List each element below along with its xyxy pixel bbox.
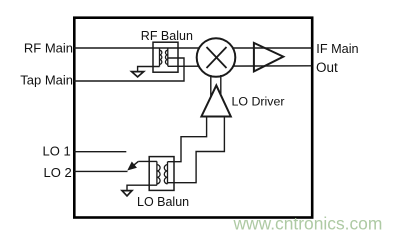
wire Tap Main rail [74,58,184,81]
wire RF balun primary ground lead [138,67,160,72]
svg-text:www.cntronics.com: www.cntronics.com [233,213,383,233]
LO balun secondary winding [164,162,167,184]
RF balun box [153,42,178,72]
LO balun box [149,157,174,191]
ground (LO balun) [122,191,132,196]
svg-text:Tap Main: Tap Main [20,73,73,88]
wire LO driver left input from LO balun secondary top [168,117,207,162]
wire RF Main rail (RF input to balun to mixer to IF amp to right edge) [74,47,312,49]
LO balun primary winding [157,161,160,185]
wire LO balun primary ground lead [127,185,157,190]
svg-text:RF Balun: RF Balun [141,29,193,43]
svg-text:IF Main: IF Main [316,42,358,56]
svg-text:LO Driver: LO Driver [232,94,285,108]
wire mixer LO port stem [210,75,212,99]
svg-text:LO 1: LO 1 [43,144,71,159]
mixer X [207,47,227,68]
svg-text:Out: Out [316,60,338,75]
switch arrowhead [128,163,136,170]
svg-text:LO Balun: LO Balun [137,195,189,209]
switch arm [133,161,139,166]
svg-text:RF Main: RF Main [24,40,73,55]
ground (RF balun) [132,72,144,77]
RF balun primary winding [160,48,162,67]
IF amp U1 [254,43,283,72]
device outline box [74,18,312,218]
mixer X circle [197,38,236,77]
wire bottom IF rail (balun secondary bottom to mixer to IF amp to right edge) [168,65,312,68]
RF balun secondary winding [165,48,167,66]
wire LO driver right input from LO balun secondary bottom [168,117,225,183]
wire LO 1 rail [74,151,126,153]
LO driver amp [201,85,230,116]
wire LO 2 rail [74,170,128,172]
svg-text:LO 2: LO 2 [44,165,72,180]
wire switch common to LO balun [138,160,157,162]
